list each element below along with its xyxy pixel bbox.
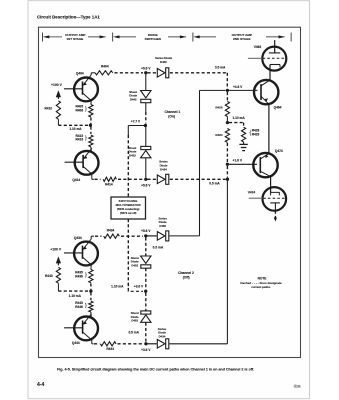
wire riser to +4.6 V node — [200, 89, 226, 91]
wire +1.6 node to Q474 base — [227, 163, 257, 165]
svg-text:SWITCHES: SWITCHES — [145, 37, 161, 41]
svg-text:D434: D434 — [159, 335, 166, 339]
shunt diode column channel 2: dashed from +5.6 node down (0.5 mA) — [145, 238, 147, 256]
svg-text:NOTE: NOTE — [258, 276, 267, 280]
svg-text:2ND STAGE: 2ND STAGE — [233, 37, 250, 41]
ground symbol — [243, 142, 245, 144]
wire node to series diode D450 — [146, 235, 157, 237]
svg-text:MULTIVIBRATOR: MULTIVIBRATOR — [116, 203, 142, 207]
svg-text:D420: D420 — [160, 60, 167, 64]
dashed current path R404 to +5.6 V node — [115, 72, 144, 74]
junction node R435/R445 — [89, 289, 92, 292]
svg-text:Q464: Q464 — [274, 105, 282, 109]
svg-text:+100 V: +100 V — [51, 83, 63, 87]
wire Q434 collector to R434 — [90, 236, 92, 239]
dashed cathode current stub below V474 — [274, 211, 276, 218]
svg-text:V464: V464 — [254, 45, 262, 49]
svg-text:}: } — [85, 107, 87, 113]
V464 plate and lead — [274, 40, 276, 53]
wire +7.7 node down to shunt diode D423 — [145, 126, 147, 147]
V474 plate (staple) — [271, 192, 280, 195]
wire +4.6 node to Q464 base — [227, 89, 257, 91]
svg-text:1.10 mA: 1.10 mA — [69, 294, 82, 298]
dashed wire D453 to +3.6 V node — [145, 323, 147, 342]
svg-text:0.5 mA: 0.5 mA — [153, 246, 164, 250]
node +3.6 V (multivibrator tap) — [144, 290, 147, 293]
dashed wire multivibrator box down to channel 2 corner — [127, 219, 129, 290]
svg-text:1ST STAGE: 1ST STAGE — [66, 37, 83, 41]
wire +7.7 node to left corner — [128, 125, 145, 127]
svg-text:Q414: Q414 — [72, 178, 80, 182]
wire D442 to +7.7 V node — [145, 103, 147, 113]
svg-text:}: } — [85, 273, 87, 279]
svg-text:1.10 mA: 1.10 mA — [232, 116, 245, 120]
svg-text:Fig. 4-5. Simplified circuit d: Fig. 4-5. Simplified circuit diagram sho… — [57, 367, 254, 371]
svg-text:D442: D442 — [130, 97, 137, 101]
junction node R405/R415 — [89, 124, 92, 127]
section dimension line: OUTPUT AMP 1ST STAGE — [42, 33, 44, 42]
svg-text:R440: R440 — [45, 274, 53, 278]
wire Q444 emitter to R444 — [91, 340, 93, 344]
svg-text:Circuit Description—Type 1A1: Circuit Description—Type 1A1 — [37, 15, 100, 20]
svg-text:+7.7 V: +7.7 V — [131, 119, 141, 123]
wire Q404 collector to R404 — [90, 73, 92, 75]
section dimension line: DIODE SWITCHES — [113, 35, 120, 38]
svg-text:R436: R436 — [75, 275, 83, 279]
svg-text:R410: R410 — [45, 107, 53, 111]
dashed wire R436 to junction — [90, 283, 92, 289]
dashed wire R406 to junction — [90, 118, 92, 125]
svg-text:®Я: ®Я — [294, 383, 302, 390]
dashed current path D420 to output amp (0.5 mA) — [170, 72, 228, 74]
svg-text:(On): (On) — [168, 115, 175, 119]
svg-text:+100 V: +100 V — [50, 248, 62, 252]
dashed wire down to +4.6 V node — [226, 73, 228, 89]
schematic border frame — [39, 27, 301, 357]
svg-text:}: } — [85, 303, 87, 309]
svg-text:+1.6 V: +1.6 V — [233, 158, 243, 162]
svg-text:}: } — [85, 136, 87, 142]
dashed branch to R428 R429 — [229, 122, 244, 124]
section dimension line: OUTPUT AMP 2ND STAGE — [193, 35, 200, 38]
wire R416 to Q414 — [90, 147, 92, 151]
dashed wire node down to shunt diode D453 (0.5 mA) — [145, 293, 147, 311]
svg-text:0.5 mA: 0.5 mA — [128, 331, 139, 335]
wire R446 to Q444 — [90, 312, 92, 317]
dashed wire junction to R415 — [90, 127, 92, 135]
dashed wire node to series diode D420 — [148, 72, 157, 74]
dashed wire node to series diode D424 — [148, 178, 157, 180]
dashed current path R434 to +5.6 V node — [121, 235, 143, 237]
svg-text:D453: D453 — [131, 319, 138, 323]
dashed current path R414 to +5.6 V node — [118, 178, 143, 180]
svg-text:Q474: Q474 — [275, 149, 283, 153]
wire R410 to junction (dashed current path 1.10 mA) — [57, 119, 59, 125]
svg-text:R426: R426 — [215, 106, 223, 110]
svg-text:0.5 mA: 0.5 mA — [215, 65, 226, 69]
wire V464 cathode to Q464 collector — [269, 65, 271, 81]
V474 cathode and lead — [270, 202, 280, 204]
dashed wire D433 to +3.6 V node — [145, 268, 147, 290]
svg-text:(B245 conducting): (B245 conducting) — [117, 207, 139, 211]
dashed wire junction to R445 — [90, 292, 92, 300]
svg-text:+5.6 V: +5.6 V — [141, 229, 151, 233]
wire D434 to right riser — [169, 343, 227, 345]
svg-text:{: { — [249, 130, 251, 136]
svg-text:(B273 cut off): (B273 cut off) — [120, 211, 136, 215]
svg-text:R434: R434 — [107, 229, 115, 233]
svg-text:Q404: Q404 — [76, 71, 84, 75]
svg-text:R424: R424 — [215, 133, 223, 137]
svg-text:R429: R429 — [252, 133, 260, 137]
dashed wire down to switching multivibrator box — [127, 135, 129, 197]
shunt diode column channel 1: wire from +5.6 node down — [145, 74, 147, 91]
V464 cathode — [270, 64, 280, 66]
svg-text:R406: R406 — [75, 109, 83, 113]
dashed wire +1.6 node down (0.5 mA) — [226, 166, 228, 178]
svg-text:0.5 mA: 0.5 mA — [209, 182, 220, 186]
svg-text:R404: R404 — [101, 64, 109, 68]
svg-text:4-4: 4-4 — [37, 382, 44, 388]
wire R440 to junction (dashed 1.10 mA) — [57, 283, 59, 291]
svg-text:R414: R414 — [105, 183, 113, 187]
riser wire up to +4.6 V node — [199, 90, 201, 236]
svg-text:+5.6 V: +5.6 V — [141, 66, 151, 70]
svg-text:+4.6 V: +4.6 V — [233, 85, 243, 89]
svg-text:R444: R444 — [106, 347, 114, 351]
svg-text:R416: R416 — [75, 138, 83, 142]
wire Q464 emitter to Q474 collector — [268, 104, 270, 153]
svg-text:+3.6 V: +3.6 V — [134, 284, 144, 288]
switching multivibrator box — [111, 197, 146, 219]
svg-text:D433: D433 — [131, 263, 138, 267]
svg-text:Q444: Q444 — [72, 341, 80, 345]
svg-text:V474: V474 — [248, 190, 256, 194]
svg-text:D450: D450 — [159, 224, 166, 228]
svg-text:D423: D423 — [129, 153, 136, 157]
dashed wire +4.6 node down to R426 (1.10 mA) — [226, 92, 228, 101]
svg-text:(Off): (Off) — [183, 275, 190, 279]
node 0.5 mA join — [226, 178, 229, 181]
svg-text:Q434: Q434 — [74, 236, 82, 240]
wire D450 to riser — [169, 235, 199, 237]
wire Q414 emitter to R414 — [91, 174, 93, 179]
svg-text:+5.6 V: +5.6 V — [141, 183, 151, 187]
V474 grid (dashed) and grid lead — [263, 197, 285, 199]
wire Q474 emitter to V474 plate — [270, 176, 272, 192]
dashed current path D424 to 2nd stage (0.5 mA) — [170, 178, 226, 180]
wire node to series diode D434 — [146, 343, 157, 345]
svg-text:current paths.: current paths. — [251, 285, 271, 289]
svg-text:+3.6 V: +3.6 V — [141, 348, 151, 352]
dashed wire R424 to +1.6 V node — [226, 143, 228, 163]
svg-text:D424: D424 — [160, 167, 167, 171]
V464 grid (dashed) and grid lead — [263, 57, 286, 59]
svg-text:R446: R446 — [75, 305, 83, 309]
wire D423 to +5.6 V node — [145, 158, 147, 178]
svg-text:1.10 mA: 1.10 mA — [69, 127, 82, 131]
svg-text:1.10 mA: 1.10 mA — [111, 284, 124, 288]
dashed current path R444 to +3.6 V node — [118, 343, 144, 345]
riser wire down to channel 2 series diode row — [226, 180, 228, 344]
